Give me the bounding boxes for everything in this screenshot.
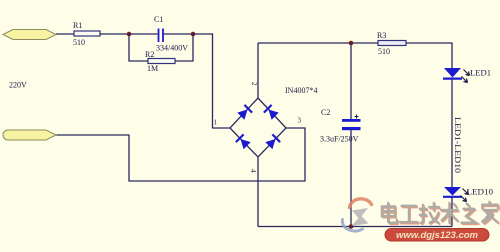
- svg-text:R3: R3: [377, 31, 386, 40]
- svg-text:C2: C2: [321, 108, 330, 117]
- svg-text:3.3uF/250V: 3.3uF/250V: [320, 135, 359, 144]
- diode D2 top-right: [269, 110, 279, 120]
- wire R3 to LED string: [406, 43, 452, 68]
- svg-text:LED1-LED10: LED1-LED10: [453, 117, 462, 173]
- capacitor C1: [158, 29, 160, 43]
- wire port1 to R1: [56, 33, 74, 35]
- LED10: [444, 187, 461, 196]
- wire node B to bridge node 1: [193, 34, 230, 128]
- svg-text:510: 510: [378, 47, 390, 56]
- svg-text:www.dgjs123.com: www.dgjs123.com: [396, 230, 479, 241]
- svg-text:C1: C1: [154, 15, 163, 24]
- diode D3 bottom-left: [241, 139, 251, 149]
- svg-text:R2: R2: [145, 50, 154, 59]
- port P1 (220V live terminal): [3, 30, 56, 40]
- svg-text:2: 2: [250, 82, 258, 86]
- svg-text:510: 510: [73, 38, 85, 47]
- diode D1 top-left: [237, 110, 247, 120]
- svg-text:334/400V: 334/400V: [156, 44, 188, 53]
- capacitor C2 lead top: [350, 43, 352, 119]
- wire node A to C1: [129, 33, 158, 35]
- DC- bottom rail: [258, 226, 452, 228]
- wire node 3 to AC return: [56, 128, 305, 181]
- DC+ rail from node 2 to R3: [258, 42, 378, 44]
- port P2 (220V neutral terminal): [3, 130, 56, 140]
- node 4 lead (bridge bottom to DC- rail): [257, 157, 259, 227]
- wire R1 to node A: [100, 33, 129, 35]
- svg-text:R1: R1: [73, 21, 82, 30]
- svg-text:1M: 1M: [147, 64, 158, 73]
- LED1: [444, 68, 461, 78]
- svg-text:LED10: LED10: [467, 188, 494, 197]
- resistor R2: [148, 59, 175, 64]
- node B junction: [191, 32, 196, 37]
- bridge rectifier diamond IN4007*4: [230, 98, 286, 157]
- svg-text:IN4007*4: IN4007*4: [285, 86, 317, 95]
- junction at C2 bottom: [349, 224, 354, 229]
- resistor R1: [74, 31, 100, 36]
- watermark text 电工技术之家: [382, 202, 499, 224]
- diode D4 bottom-right: [265, 139, 275, 149]
- svg-text:LED1: LED1: [470, 69, 491, 78]
- svg-text:3: 3: [298, 117, 302, 125]
- junction at C2 top: [349, 41, 354, 46]
- wire left drop to R2: [129, 34, 148, 61]
- node 2 lead (bridge top to DC+ rail): [257, 43, 259, 98]
- watermark logo icon: [342, 199, 371, 231]
- capacitor C2 lead bottom: [350, 130, 352, 227]
- svg-text:1: 1: [214, 119, 218, 127]
- wire R2 to right drop: [175, 34, 193, 61]
- svg-text:4: 4: [249, 169, 257, 173]
- watermark url pill: [385, 229, 489, 242]
- LED string wire: [451, 80, 453, 187]
- wire C1 to node B: [164, 33, 193, 35]
- svg-text:220V: 220V: [9, 81, 27, 90]
- resistor R3: [378, 41, 406, 46]
- LED10 lead to rail: [451, 197, 453, 227]
- node A junction: [127, 32, 132, 37]
- capacitor C2: [342, 119, 361, 122]
